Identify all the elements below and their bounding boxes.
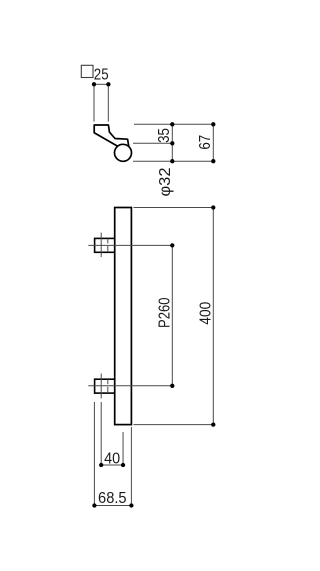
extension line bracket left edge (to 68.5) xyxy=(93,402,95,506)
dimension line 400 xyxy=(212,208,214,425)
extension line bar center (to 40) xyxy=(122,432,124,466)
mounting bracket 1 body xyxy=(95,238,115,252)
extension line bar right edge (to 68.5) xyxy=(130,427,132,506)
svg-text:400: 400 xyxy=(198,302,215,325)
extension line mounting face (top) xyxy=(134,123,214,125)
handle bar cross-section circle phi32 xyxy=(115,144,132,161)
extension line bar near edge (middle) xyxy=(133,142,174,144)
extension line bar far edge (bottom) xyxy=(133,160,214,162)
bracket 1 horizontal center line xyxy=(88,244,172,246)
extension line bar bottom xyxy=(134,424,215,426)
square symbol of label square-25 xyxy=(81,65,93,77)
svg-text:68.5: 68.5 xyxy=(98,490,127,507)
bracket 2 horizontal center line xyxy=(88,385,172,387)
svg-text:φ32: φ32 xyxy=(157,167,174,196)
bracket 2 vertical center line xyxy=(100,374,102,399)
svg-text:40: 40 xyxy=(104,450,120,467)
dimension line 35 / phi32 xyxy=(171,124,173,161)
extension line right of 25 xyxy=(107,87,109,122)
handle bar front view xyxy=(115,208,132,425)
svg-text:25: 25 xyxy=(94,67,109,84)
extension line left of 25 xyxy=(93,87,95,122)
dimension line 67 xyxy=(212,124,214,161)
svg-text:P260: P260 xyxy=(156,297,173,328)
extension line bar top xyxy=(134,207,215,209)
dimension line 68.5 xyxy=(94,505,131,507)
svg-text:67: 67 xyxy=(197,135,214,150)
dimension line 25 xyxy=(94,83,108,85)
bracket arm profile (side view outline) xyxy=(94,125,129,147)
bracket 2 hidden line (dashed) xyxy=(107,379,109,384)
dimension line 40 xyxy=(101,464,123,466)
bracket 1 vertical center line xyxy=(100,233,102,257)
mounting bracket 2 body xyxy=(95,379,115,393)
dimension line P260 xyxy=(171,245,173,385)
svg-text:35: 35 xyxy=(156,128,173,143)
bracket 1 hidden line (dashed) xyxy=(107,238,109,243)
extension line bracket center (to 40) xyxy=(100,402,102,466)
